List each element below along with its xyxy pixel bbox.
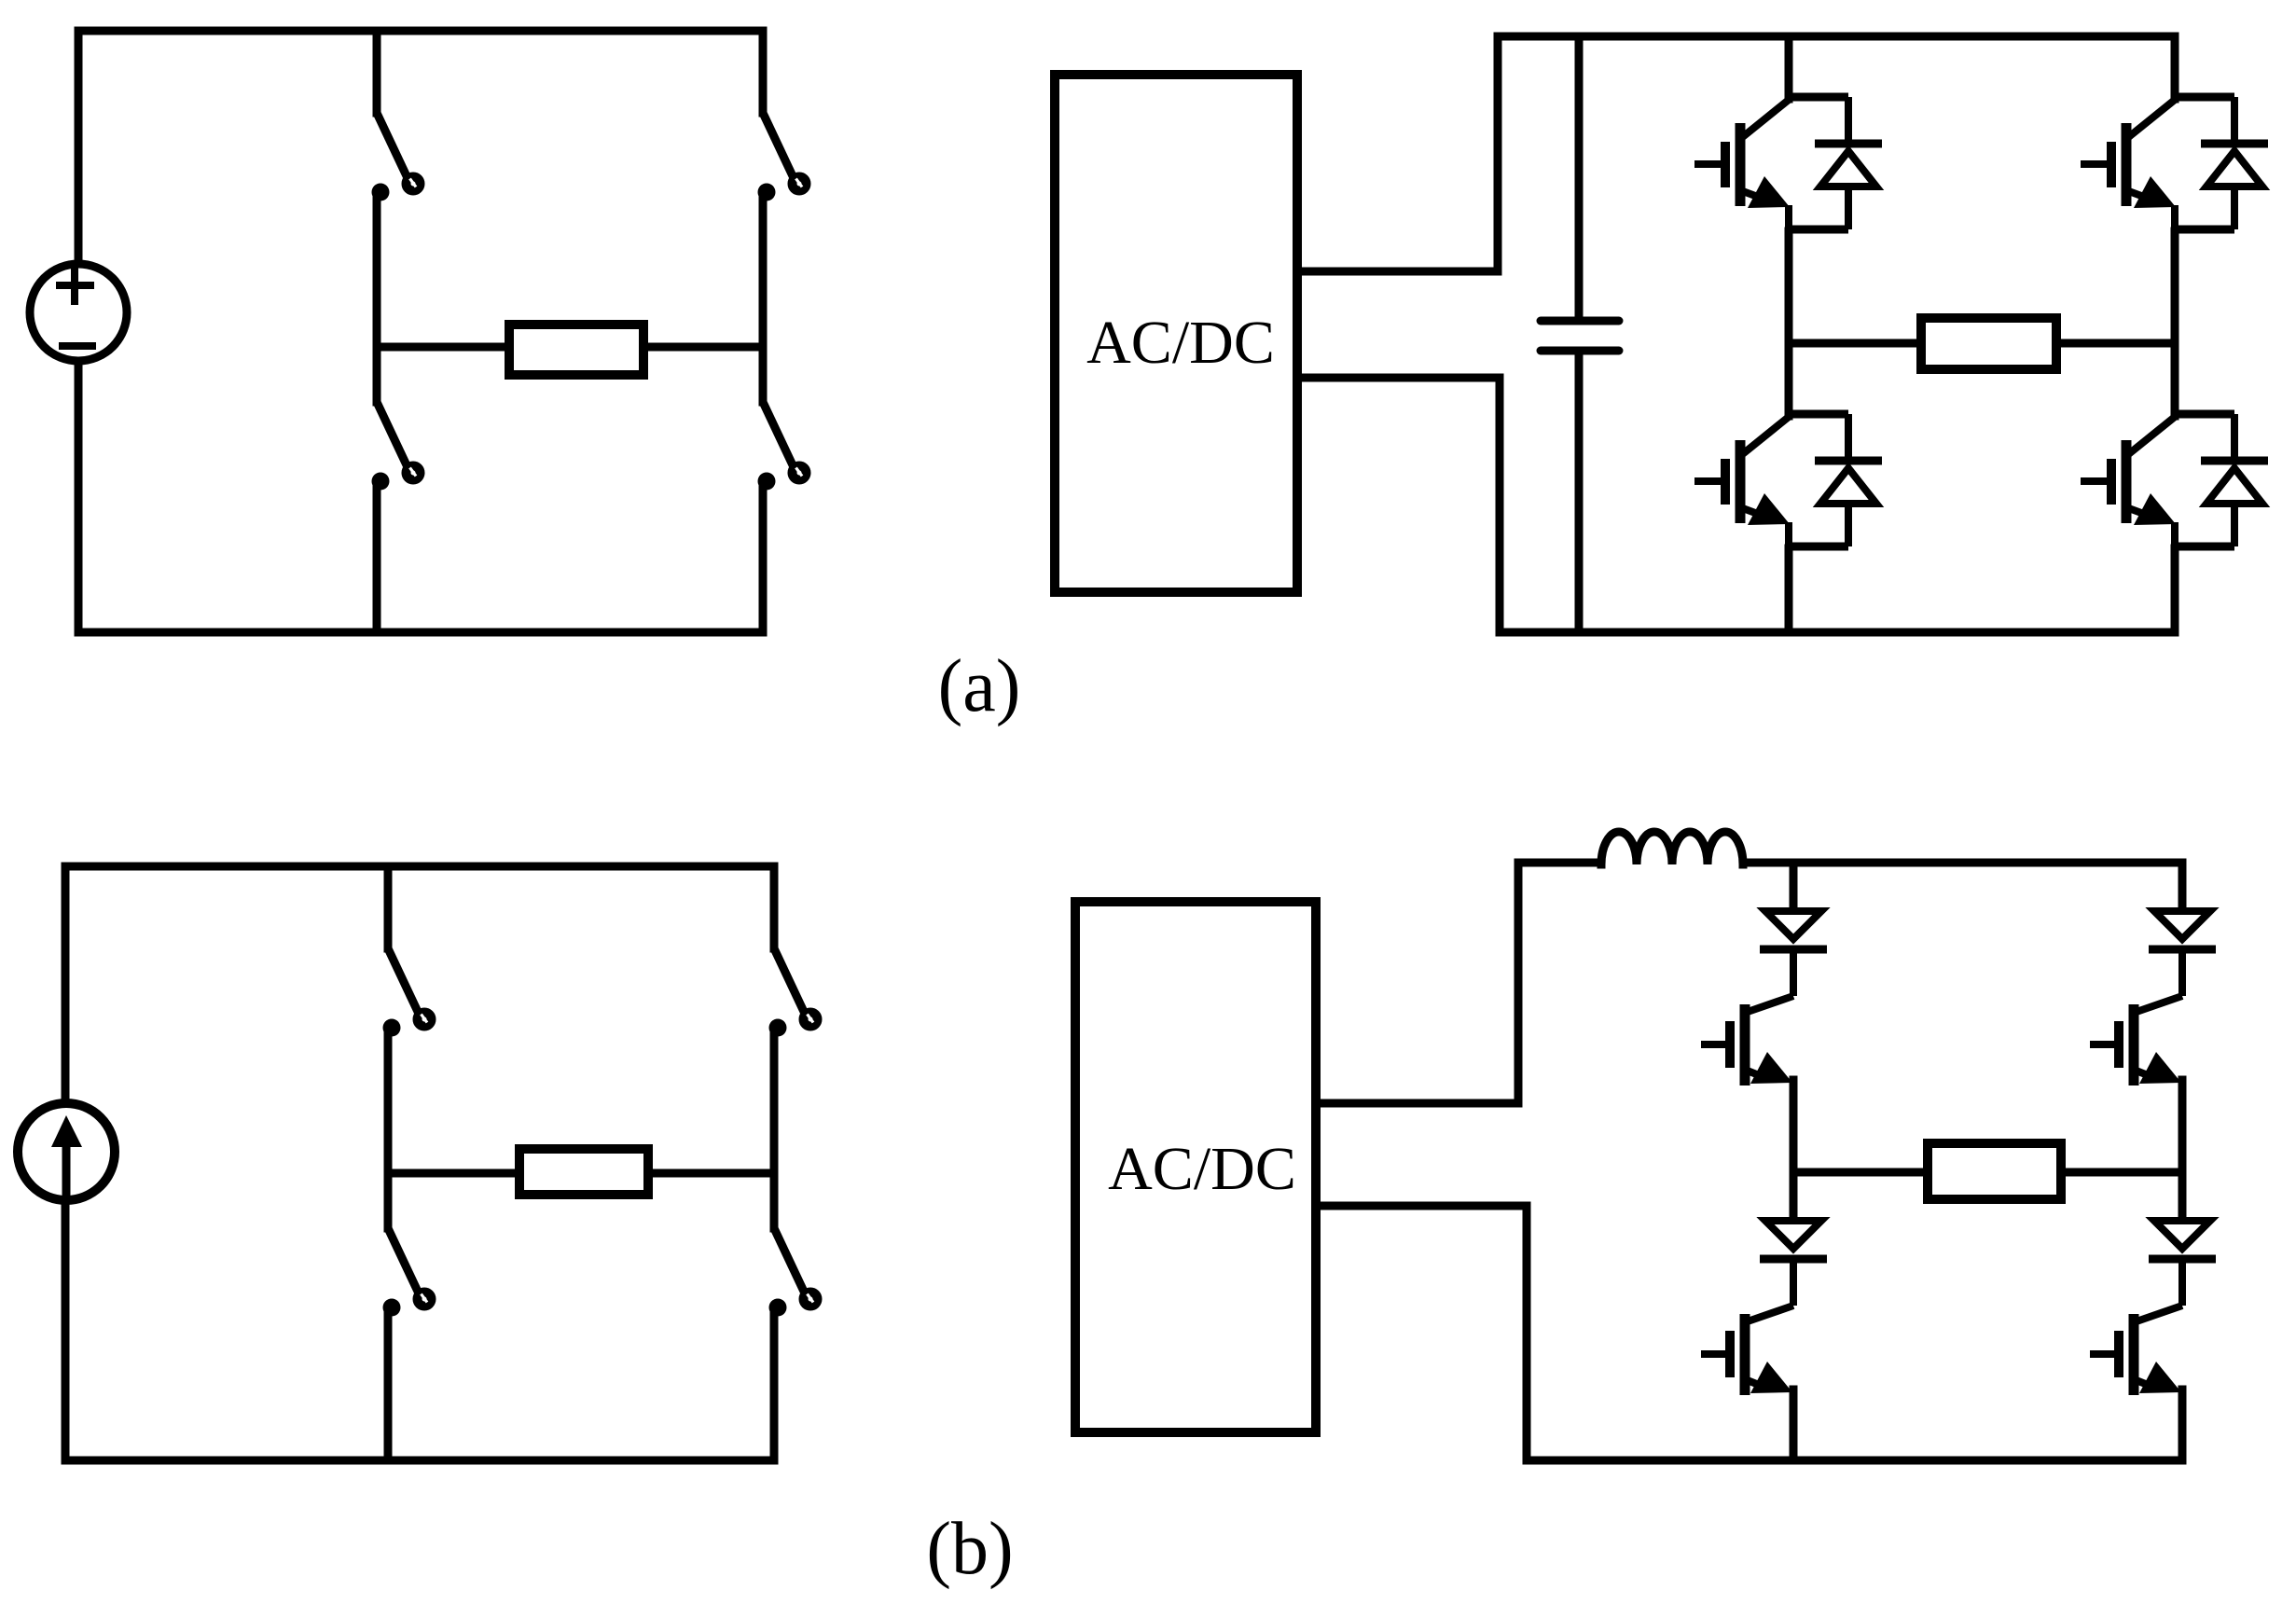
svg-text:AC/DC: AC/DC — [1108, 1135, 1296, 1203]
svg-text:(a): (a) — [938, 645, 1021, 727]
svg-text:(b): (b) — [926, 1508, 1013, 1590]
svg-text:AC/DC: AC/DC — [1086, 309, 1275, 377]
